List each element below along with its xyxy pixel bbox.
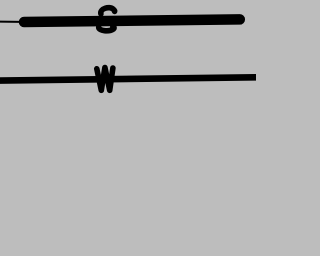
net label S (bottom bowl) — [99, 27, 114, 31]
net label W — [97, 68, 113, 91]
wire W2: lower wire full width — [0, 77, 258, 80]
wire segment: thin lead at top-left — [0, 21, 20, 23]
wire W1: thick top wire — [24, 19, 240, 22]
net label S (top arc) — [101, 8, 115, 14]
